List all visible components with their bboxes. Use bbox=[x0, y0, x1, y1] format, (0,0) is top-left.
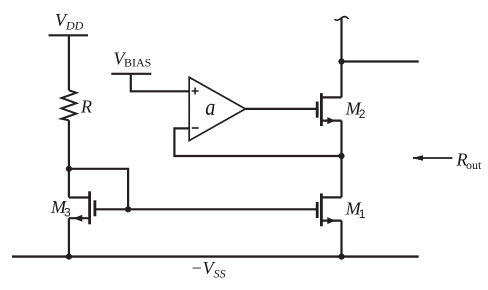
transistor M1 source arrow bbox=[327, 217, 335, 224]
transistor M3 channel bar bbox=[88, 191, 91, 224]
supply break squiggle bbox=[334, 17, 348, 21]
wire resistor to M3 drain bbox=[68, 120, 70, 197]
power VSS rail bbox=[12, 255, 419, 257]
wire node A to gate column bbox=[69, 169, 128, 210]
node D junction dot top bbox=[338, 58, 344, 64]
transistor M2 drain lead bbox=[321, 96, 341, 98]
svg-text:a: a bbox=[205, 93, 215, 120]
transistor M2 gate bar bbox=[316, 102, 319, 118]
wire M3 source to VSS rail bbox=[68, 218, 70, 256]
node C junction dot feedback bbox=[338, 153, 344, 159]
transistor M2 channel bar bbox=[320, 93, 323, 126]
wire op-amp output to M2 gate bbox=[245, 108, 316, 110]
Rout probe arrow bbox=[413, 157, 452, 159]
node B junction dot on gate wire bbox=[125, 206, 131, 212]
wire VDD to resistor bbox=[68, 35, 70, 90]
op-amp minus input sign bbox=[192, 127, 199, 129]
transistor M3 source lead bbox=[69, 217, 90, 219]
power VBIAS bar bbox=[111, 73, 151, 75]
node A junction dot bbox=[66, 166, 72, 172]
transistor M1 gate bar bbox=[316, 202, 319, 218]
transistor M3 drain lead bbox=[69, 196, 90, 198]
wire top output stub bbox=[342, 60, 419, 62]
svg-text:M1: M1 bbox=[345, 199, 366, 222]
wire op-amp minus input feedback bbox=[174, 128, 341, 156]
wire VBIAS to op-amp plus input bbox=[131, 74, 189, 92]
transistor M1 drain lead bbox=[321, 196, 341, 198]
op-amp plus input sign bbox=[192, 88, 199, 95]
svg-text:R: R bbox=[80, 97, 92, 117]
svg-text:out: out bbox=[466, 158, 482, 172]
svg-text:M2: M2 bbox=[345, 99, 366, 122]
wire M2 source down to node C bbox=[340, 121, 342, 156]
node E junction dot rail left bbox=[66, 254, 72, 260]
svg-text:−VSS: −VSS bbox=[191, 258, 226, 281]
transistor M3 source arrow bbox=[74, 215, 83, 222]
svg-text:BIAS: BIAS bbox=[124, 56, 151, 70]
transistor M2 source arrow bbox=[327, 117, 335, 124]
svg-text:M3: M3 bbox=[50, 197, 71, 220]
resistor R bbox=[62, 90, 77, 120]
wire M1 drain up to node C bbox=[340, 156, 342, 197]
op-amp U1 triangle bbox=[189, 77, 245, 140]
transistor M1 channel bar bbox=[320, 193, 323, 226]
wire M3 gate to M1 gate bbox=[95, 208, 316, 210]
transistor M1 source lead bbox=[321, 220, 341, 222]
power VDD bar bbox=[49, 34, 89, 36]
svg-text:VDD: VDD bbox=[55, 10, 84, 33]
transistor M2 source lead bbox=[321, 119, 341, 121]
transistor M3 gate bar bbox=[94, 200, 97, 216]
node F junction dot rail right bbox=[338, 254, 344, 260]
wire M2 drain up to supply stub bbox=[340, 19, 342, 98]
wire M1 source to VSS rail bbox=[340, 221, 342, 257]
